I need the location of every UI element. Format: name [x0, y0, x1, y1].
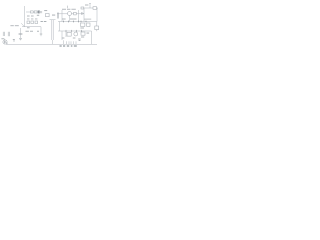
wire left column vertical — [24, 6, 26, 27]
wire vertical x78.5 upper — [78, 10, 80, 22]
wire right column to box — [96, 22, 98, 32]
wire vertical x66 lower — [65, 31, 67, 37]
label vertical tick — [66, 6, 69, 9]
capacitor C6 on input stub — [19, 33, 23, 34]
wire bottom ground rail — [6, 43, 97, 45]
wire antenna stub x90 — [89, 4, 91, 9]
wire left row1 — [26, 11, 38, 13]
transistor Q3 — [74, 32, 78, 36]
junction dots rail A — [63, 21, 64, 22]
capacitor C1 — [38, 11, 40, 14]
label text transistor Q4 — [1, 37, 4, 40]
label text input left — [10, 24, 13, 27]
junction dots rail B — [66, 31, 67, 32]
transistor Q2 — [68, 12, 72, 16]
wire vertical x62 lower — [61, 31, 63, 40]
resistor R7 right mid — [81, 23, 85, 26]
resistor R11 — [31, 21, 34, 24]
junction stubs rail A — [64, 20, 87, 22]
resistor R10 right column — [95, 26, 99, 30]
label text top center — [62, 8, 66, 11]
wire Q2 emitter — [69, 16, 71, 22]
capacitor C4 left — [3, 32, 4, 36]
label text row y37.8 — [62, 37, 65, 40]
capacitor C7 — [40, 27, 42, 37]
wire input stub — [20, 28, 22, 38]
label text below rail B right — [87, 32, 90, 35]
resistor R3 — [27, 21, 30, 24]
wire signal line y14 — [57, 13, 84, 15]
diode D1 — [82, 12, 84, 14]
transistor Q4 bottom left — [3, 40, 7, 44]
resistor R5 — [74, 12, 77, 15]
wire tall column double — [50, 20, 56, 45]
label text below C1 — [37, 14, 39, 17]
wire mid supply rail A — [58, 21, 97, 23]
label text near X1 — [44, 20, 47, 23]
wire output legs above rail — [64, 40, 77, 44]
label text right mid below — [80, 27, 84, 30]
component X1 box — [46, 14, 50, 17]
wire vertical x84 — [83, 8, 85, 22]
resistor R8 right mid — [87, 23, 90, 26]
capacitor C2 — [41, 11, 42, 13]
label text above rail A — [62, 18, 66, 21]
label text above box center — [44, 9, 47, 12]
ground symbol — [19, 38, 22, 40]
wire vertical x59.5 between rails — [59, 22, 61, 32]
resistor R2 — [34, 11, 37, 13]
label text top right — [85, 4, 88, 7]
label text row1 left under — [27, 15, 30, 18]
resistor R4 — [35, 21, 38, 24]
resistor R9 lower right — [81, 32, 85, 35]
wire right edge vertical — [96, 8, 98, 22]
wire left row2 — [22, 26, 41, 28]
resistor R1 — [30, 11, 33, 13]
IC U1 box — [67, 32, 71, 36]
wire mid supply rail B — [58, 30, 92, 32]
junction stubs rail B — [66, 30, 82, 32]
capacitor C3 top right — [81, 7, 84, 9]
label text Tr1 — [78, 38, 80, 41]
wire top-right feed — [84, 7, 98, 9]
label text above row2 left — [27, 18, 29, 21]
connector screen lines — [57, 13, 58, 19]
wire vertical x91.5 lower right — [91, 31, 93, 44]
capacitor C5 left — [8, 32, 9, 36]
label text below row2 — [27, 26, 30, 29]
input arrow — [21, 23, 24, 26]
resistor R6 top right — [93, 7, 97, 10]
label text near ground — [13, 38, 15, 41]
label text below bottom rail — [60, 45, 62, 46]
label text y31 left mid — [26, 30, 29, 33]
label text mid x52 — [52, 14, 55, 17]
wire vertical x62 upper — [61, 10, 63, 22]
